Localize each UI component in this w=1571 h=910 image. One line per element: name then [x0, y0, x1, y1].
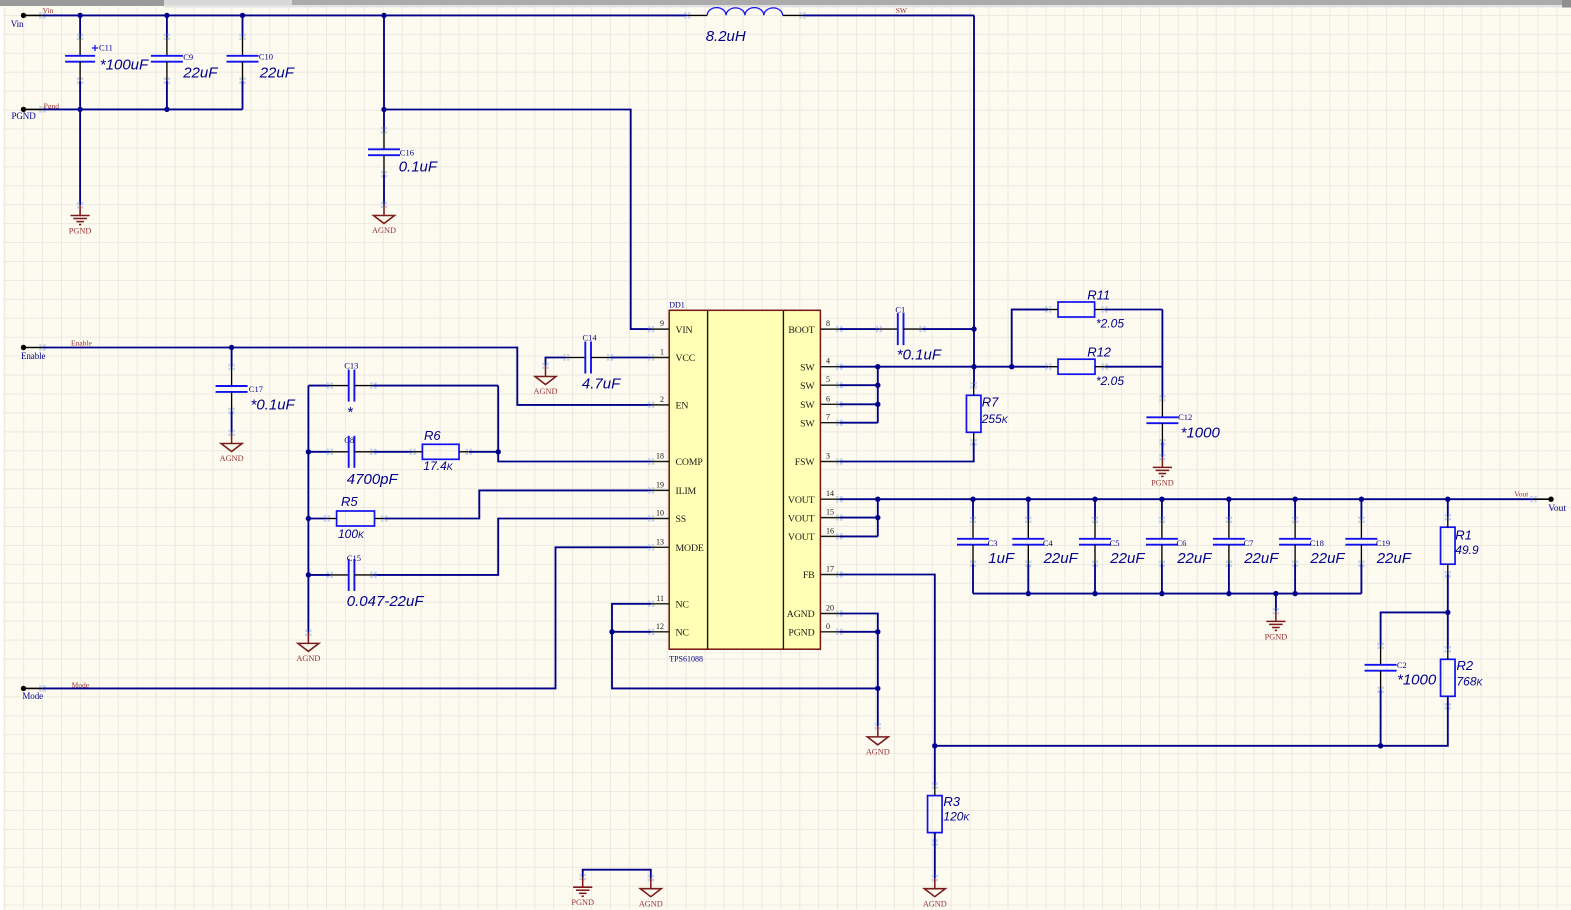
capacitor C3 1uF — [957, 517, 989, 567]
svg-text:FSW: FSW — [795, 457, 816, 468]
wire C15 left — [308, 574, 330, 576]
svg-text:C7: C7 — [1244, 538, 1254, 548]
node gnd bus — [1226, 591, 1231, 596]
svg-text:C12: C12 — [1178, 412, 1192, 422]
svg-text:C9: C9 — [183, 52, 193, 62]
svg-text:SW: SW — [800, 362, 815, 373]
svg-text:*100uF: *100uF — [100, 56, 149, 73]
capacitor C18 22uF — [1279, 517, 1311, 567]
svg-text:Enable: Enable — [21, 351, 45, 361]
svg-text:22uF: 22uF — [1109, 550, 1145, 567]
svg-text:22uF: 22uF — [1309, 550, 1345, 567]
svg-text:Vout: Vout — [1514, 490, 1529, 499]
node VOUT-C4 — [1026, 497, 1031, 502]
svg-text:5: 5 — [826, 375, 830, 384]
svg-text:C6: C6 — [1177, 538, 1187, 548]
svg-text:1uF: 1uF — [988, 550, 1015, 567]
node gnd bus — [1026, 591, 1031, 596]
port Mode — [21, 685, 46, 701]
svg-text:9: 9 — [660, 319, 664, 328]
wire C13 left — [308, 385, 330, 387]
ground AGND — [875, 723, 881, 729]
wire R11 right — [1104, 309, 1162, 311]
resistor R3 — [928, 782, 971, 845]
pin 14 VOUT — [788, 489, 843, 506]
node Vin-branch — [381, 13, 386, 18]
wire R11 branch — [1012, 310, 1048, 367]
svg-text:0: 0 — [826, 622, 830, 631]
window top bar — [0, 0, 1571, 5]
wire BOOT to C1 — [839, 328, 879, 330]
svg-text:C5: C5 — [1110, 538, 1120, 548]
wire C17 bottom — [231, 411, 233, 433]
svg-text:R6: R6 — [424, 428, 441, 443]
node VOUT-C5 — [1092, 497, 1097, 502]
ground PGND — [1273, 608, 1279, 614]
svg-text:3: 3 — [826, 452, 830, 461]
svg-text:11: 11 — [656, 594, 664, 603]
wire C5 bottom — [1094, 564, 1096, 594]
svg-text:0.047-22uF: 0.047-22uF — [347, 593, 425, 610]
node R6-COMP — [496, 449, 501, 454]
svg-text:AGND: AGND — [639, 899, 663, 908]
capacitor C10 22uF — [242, 15, 244, 37]
svg-text:C17: C17 — [249, 384, 263, 394]
svg-text:C13: C13 — [344, 361, 358, 371]
ground AGND — [932, 875, 938, 881]
wire output cap ground bus — [973, 593, 1361, 595]
wire C14 right to VCC — [610, 357, 651, 359]
wire R12 right — [1105, 366, 1163, 368]
pin 8 BOOT — [788, 319, 842, 336]
wire Mode to MODE pin — [42, 547, 651, 688]
wire C7 bottom — [1228, 564, 1230, 594]
svg-text:AGND: AGND — [220, 454, 244, 463]
capacitor C13 — [327, 370, 377, 402]
wire C19 top — [1360, 499, 1362, 520]
node gnd bus — [1159, 591, 1164, 596]
wire R11 left — [1012, 309, 1048, 311]
node FB return — [932, 743, 937, 748]
wire C5 top — [1094, 499, 1096, 520]
wire R1 top — [1447, 499, 1449, 517]
svg-text:SW: SW — [896, 6, 908, 15]
wire R5 left — [308, 518, 326, 520]
wire R2 bottom — [935, 696, 1448, 746]
svg-text:C19: C19 — [1376, 538, 1390, 548]
pin 11 NC — [648, 594, 689, 611]
wire R3 bottom — [934, 832, 936, 878]
wire C18 bottom — [1294, 564, 1296, 594]
svg-text:*0.1uF: *0.1uF — [897, 347, 942, 364]
svg-text:PGND: PGND — [571, 898, 594, 907]
node SW4 — [875, 364, 880, 369]
svg-text:16: 16 — [826, 526, 834, 535]
svg-text:C10: C10 — [259, 52, 273, 62]
svg-text:C3: C3 — [988, 538, 998, 548]
wire branch down to C16 — [383, 15, 385, 130]
svg-text:120K: 120K — [943, 810, 970, 824]
wire SW6 — [839, 403, 877, 405]
wire C11 top — [79, 15, 81, 37]
svg-text:C8: C8 — [344, 435, 354, 445]
svg-text:22uF: 22uF — [1043, 550, 1079, 567]
svg-text:VOUT: VOUT — [788, 495, 815, 506]
node SW-BOOT junction — [971, 326, 976, 331]
svg-text:AGND: AGND — [534, 387, 558, 396]
svg-text:SS: SS — [676, 514, 687, 525]
ground AGND — [542, 363, 548, 369]
node bus-R5 — [306, 516, 311, 521]
port Vout — [1530, 496, 1566, 514]
node PGND0 — [875, 629, 880, 634]
wire FB — [839, 575, 934, 786]
node VOUT14 — [875, 497, 880, 502]
svg-text:C2: C2 — [1397, 660, 1407, 670]
node FB divider — [1445, 610, 1450, 615]
svg-text:4700pF: 4700pF — [347, 471, 399, 488]
wire left bus — [307, 386, 309, 633]
svg-text:0.1uF: 0.1uF — [399, 158, 438, 175]
svg-text:EN: EN — [676, 401, 689, 412]
capacitor C11 *100uF — [65, 34, 95, 84]
svg-text:17: 17 — [826, 565, 834, 574]
resistor R5 — [324, 494, 388, 541]
wire VOUT16 — [839, 535, 877, 537]
wire C3 bottom — [972, 564, 974, 594]
wire C7 top — [1228, 499, 1230, 520]
svg-text:13: 13 — [656, 537, 664, 546]
svg-text:*0.1uF: *0.1uF — [251, 396, 296, 413]
svg-text:R7: R7 — [982, 395, 999, 410]
node SW5 — [875, 383, 880, 388]
svg-text:SW: SW — [800, 400, 815, 411]
wire PGND tap — [1275, 594, 1277, 612]
svg-text:AGND: AGND — [372, 226, 396, 235]
wire SW bus vertical — [877, 367, 879, 423]
wire C1 right — [922, 328, 974, 330]
wire R6 right — [469, 451, 498, 453]
port PGND — [12, 106, 46, 121]
wire C4 bottom — [1027, 564, 1029, 594]
svg-text:7: 7 — [826, 413, 830, 422]
pin 12 NC — [648, 622, 689, 639]
wire C9 bottom — [166, 81, 168, 110]
capacitor C6 22uF — [1146, 517, 1178, 567]
port Vin — [11, 12, 46, 29]
node NC-AGND junction — [875, 686, 880, 691]
node gnd bus — [1092, 591, 1097, 596]
node Enable-C17 — [229, 345, 234, 350]
svg-text:8.2uH: 8.2uH — [706, 28, 746, 45]
wire SW row to R12 — [878, 366, 1048, 368]
node gnd bus — [1292, 591, 1297, 596]
wire to C2 — [1381, 612, 1448, 646]
inductor L1 8.2uH — [684, 8, 806, 45]
svg-text:22uF: 22uF — [182, 64, 218, 81]
svg-text:R2: R2 — [1457, 658, 1474, 673]
capacitor C15 0.047-22uF — [327, 559, 377, 591]
ground AGND — [228, 430, 234, 436]
capacitor C1 *0.1uF — [876, 313, 926, 345]
node bus-C15 — [306, 572, 311, 577]
capacitor C2 *1000 — [1365, 643, 1397, 693]
pin 19 ILIM — [648, 480, 697, 497]
node VOUT-C3 — [970, 497, 975, 502]
svg-text:AGND: AGND — [787, 609, 815, 620]
wire C4 top — [1027, 499, 1029, 520]
wire AGND20 — [839, 614, 877, 727]
wire SW7 — [839, 422, 877, 424]
node Vin-C11 — [77, 13, 82, 18]
wire C19 bottom — [1360, 564, 1362, 594]
pin 2 EN — [648, 395, 689, 412]
ground PGND — [77, 202, 83, 208]
pin 20 AGND — [787, 604, 843, 621]
svg-text:10: 10 — [656, 509, 664, 518]
wire C13 right — [373, 385, 498, 387]
svg-text:SW: SW — [800, 418, 815, 429]
wire C3 top — [972, 499, 974, 520]
svg-text:PGND: PGND — [1265, 632, 1288, 641]
wire VOUT14 rail — [839, 498, 1533, 500]
svg-text:C15: C15 — [347, 553, 361, 563]
node VOUT-C18 — [1292, 497, 1297, 502]
wire R5 to ILIM — [384, 490, 651, 518]
wire PGND0 — [839, 631, 877, 633]
pin 0 PGND — [788, 622, 842, 639]
wire C16 bottom — [383, 174, 385, 205]
svg-text:NC: NC — [676, 628, 689, 639]
svg-text:*2.05: *2.05 — [1096, 374, 1124, 388]
pin 18 COMP — [648, 452, 704, 469]
svg-text:Vin: Vin — [43, 6, 54, 15]
pin 5 SW — [800, 375, 843, 392]
node VOUT-C7 — [1226, 497, 1231, 502]
svg-text:SW: SW — [800, 381, 815, 392]
node NC12 — [609, 629, 614, 634]
svg-text:COMP: COMP — [676, 457, 704, 468]
svg-text:PGND: PGND — [69, 227, 92, 236]
svg-text:MODE: MODE — [676, 543, 704, 554]
svg-text:ILIM: ILIM — [676, 486, 697, 497]
capacitor C5 22uF — [1079, 517, 1111, 567]
svg-text:17.4K: 17.4K — [423, 459, 453, 473]
capacitor C12 *1000 — [1146, 395, 1178, 445]
svg-text:49.9: 49.9 — [1455, 543, 1479, 557]
svg-text:PGND: PGND — [1151, 478, 1174, 487]
svg-text:4: 4 — [826, 357, 830, 366]
resistor R2 — [1441, 646, 1484, 709]
pin 10 SS — [648, 509, 686, 526]
ground AGND — [305, 630, 311, 636]
svg-text:TPS61088: TPS61088 — [669, 655, 703, 664]
svg-text:2: 2 — [660, 395, 664, 404]
svg-text:19: 19 — [656, 480, 664, 489]
svg-text:22uF: 22uF — [1243, 550, 1279, 567]
pin 1 VCC — [648, 348, 695, 365]
svg-text:C14: C14 — [583, 332, 598, 342]
svg-text:R5: R5 — [341, 494, 358, 509]
wire SW vertical drop — [973, 15, 975, 386]
resistor R1 — [1441, 514, 1479, 577]
svg-text:12: 12 — [656, 622, 664, 631]
wire R1 to R2 — [1447, 574, 1449, 649]
svg-text:15: 15 — [826, 508, 834, 517]
svg-text:R1: R1 — [1455, 528, 1472, 543]
svg-text:22uF: 22uF — [1376, 550, 1412, 567]
wire Vin rail right of inductor — [802, 14, 974, 16]
node SW6 — [875, 402, 880, 407]
svg-text:255K: 255K — [981, 412, 1009, 426]
svg-text:FB: FB — [803, 570, 815, 581]
wire VOUT15 — [839, 517, 877, 519]
wire PGND-AGND tie — [583, 870, 651, 878]
wire Enable to EN pin — [42, 348, 651, 405]
svg-text:22uF: 22uF — [259, 64, 295, 81]
wire C18 top — [1294, 499, 1296, 520]
node gnd bus PGND tap — [1273, 591, 1278, 596]
port Enable — [21, 344, 46, 361]
svg-text:AGND: AGND — [866, 748, 890, 757]
svg-text:14: 14 — [826, 489, 834, 498]
svg-text:PGND: PGND — [788, 628, 814, 639]
wire C10 bottom — [242, 81, 244, 110]
wire C2 bottom — [1380, 690, 1382, 746]
node Vin-C10 — [240, 13, 245, 18]
svg-text:Mode: Mode — [22, 691, 43, 701]
svg-text:8: 8 — [826, 319, 830, 328]
pin 16 VOUT — [788, 526, 843, 543]
wire C6 bottom — [1161, 564, 1163, 594]
svg-text:NC: NC — [676, 600, 689, 611]
pin 7 SW — [800, 413, 843, 430]
svg-text:18: 18 — [656, 452, 664, 461]
svg-text:Enable: Enable — [71, 338, 92, 347]
svg-text:22uF: 22uF — [1176, 550, 1212, 567]
pin 9 VIN — [648, 319, 693, 336]
wire branch to VIN pin — [384, 110, 651, 330]
wire R7 bottom to FSW — [839, 442, 973, 461]
svg-text:1: 1 — [660, 348, 664, 357]
svg-text:6: 6 — [826, 394, 830, 403]
svg-text:C4: C4 — [1043, 538, 1054, 548]
capacitor C16 0.1uF — [368, 127, 400, 177]
wire Pgnd rail — [42, 108, 242, 110]
node bus-C8 — [306, 449, 311, 454]
svg-text:R12: R12 — [1087, 345, 1112, 360]
node VOUT-C19 — [1359, 497, 1364, 502]
svg-text:AGND: AGND — [923, 899, 947, 908]
svg-text:C18: C18 — [1310, 538, 1324, 548]
capacitor C19 22uF — [1345, 517, 1377, 567]
svg-text:4.7uF: 4.7uF — [582, 375, 621, 392]
svg-text:R11: R11 — [1087, 288, 1110, 303]
wire Vin rail — [42, 14, 687, 16]
wire C8 left — [308, 451, 330, 453]
svg-text:VOUT: VOUT — [788, 513, 815, 524]
wire right bus upper — [498, 386, 651, 462]
wire C8 to R6 — [373, 451, 412, 453]
node VOUT-C6 — [1159, 497, 1164, 502]
svg-text:768K: 768K — [1457, 675, 1484, 689]
wire to C12 — [1161, 310, 1163, 399]
capacitor C14 4.7uF — [563, 342, 613, 374]
svg-text:100K: 100K — [338, 527, 365, 541]
pin 13 MODE — [648, 537, 704, 554]
svg-text:AGND: AGND — [296, 654, 320, 663]
ground AGND — [648, 875, 654, 881]
wire C6 top — [1161, 499, 1163, 520]
op-amp U1: IC DD1 TPS61088 — [669, 300, 820, 663]
wire NC12 — [612, 631, 651, 633]
svg-text:BOOT: BOOT — [788, 325, 814, 336]
svg-text:VCC: VCC — [676, 353, 696, 364]
svg-text:*1000: *1000 — [1181, 424, 1221, 441]
node branch-VIN tee — [381, 107, 386, 112]
wire NC bus — [612, 604, 878, 689]
capacitor C4 22uF — [1012, 517, 1044, 567]
pin 6 SW — [800, 394, 843, 411]
svg-text:20: 20 — [826, 604, 834, 613]
resistor R6 — [409, 428, 472, 473]
ground AGND — [381, 202, 387, 208]
node Pgnd-C9 — [164, 107, 169, 112]
wire VOUT bus vertical — [877, 499, 879, 536]
svg-text:C11: C11 — [99, 43, 113, 53]
ground PGND — [580, 874, 586, 880]
capacitor C8 4700pF — [327, 436, 377, 468]
svg-text:VOUT: VOUT — [788, 532, 815, 543]
resistor R11 — [1045, 288, 1124, 331]
pin 3 FSW — [795, 452, 843, 469]
ground PGND — [1159, 454, 1165, 460]
svg-text:Vin: Vin — [11, 19, 24, 29]
node Pgnd-C11 — [77, 107, 82, 112]
resistor R12 — [1045, 345, 1124, 389]
node SW row junction — [971, 364, 976, 369]
svg-text:Vout: Vout — [1548, 504, 1566, 514]
wire SW5 — [839, 384, 877, 386]
node C2 bottom — [1378, 743, 1383, 748]
svg-text:PGND: PGND — [12, 111, 37, 121]
svg-text:C1: C1 — [895, 304, 905, 314]
resistor R7 — [966, 382, 1008, 445]
svg-text:VIN: VIN — [676, 325, 693, 336]
wire C11 bottom to PGND rail and ground — [79, 81, 81, 206]
wire C12 bottom — [1161, 442, 1163, 457]
svg-text:*2.05: *2.05 — [1096, 317, 1124, 331]
wire SW4 — [839, 366, 877, 368]
svg-text:R3: R3 — [943, 794, 960, 809]
svg-text:DD1: DD1 — [669, 300, 685, 309]
wire C17 top — [231, 348, 233, 368]
node VOUT15 — [875, 515, 880, 520]
node VOUT-R1 — [1445, 497, 1450, 502]
capacitor C17 *0.1uF — [216, 364, 248, 414]
capacitor C9 22uF — [166, 15, 168, 37]
pin 15 VOUT — [788, 508, 843, 525]
svg-text:*1000: *1000 — [1397, 671, 1437, 688]
node SW-R11 branch — [1009, 364, 1014, 369]
wire SS to C15 — [373, 519, 651, 575]
pin 4 SW — [800, 357, 843, 374]
wire C14 left + AGND drop — [546, 358, 567, 366]
capacitor C7 22uF — [1213, 517, 1245, 567]
svg-text:C16: C16 — [400, 147, 414, 157]
pin 17 FB — [803, 565, 843, 582]
node Vin-C9 — [164, 13, 169, 18]
